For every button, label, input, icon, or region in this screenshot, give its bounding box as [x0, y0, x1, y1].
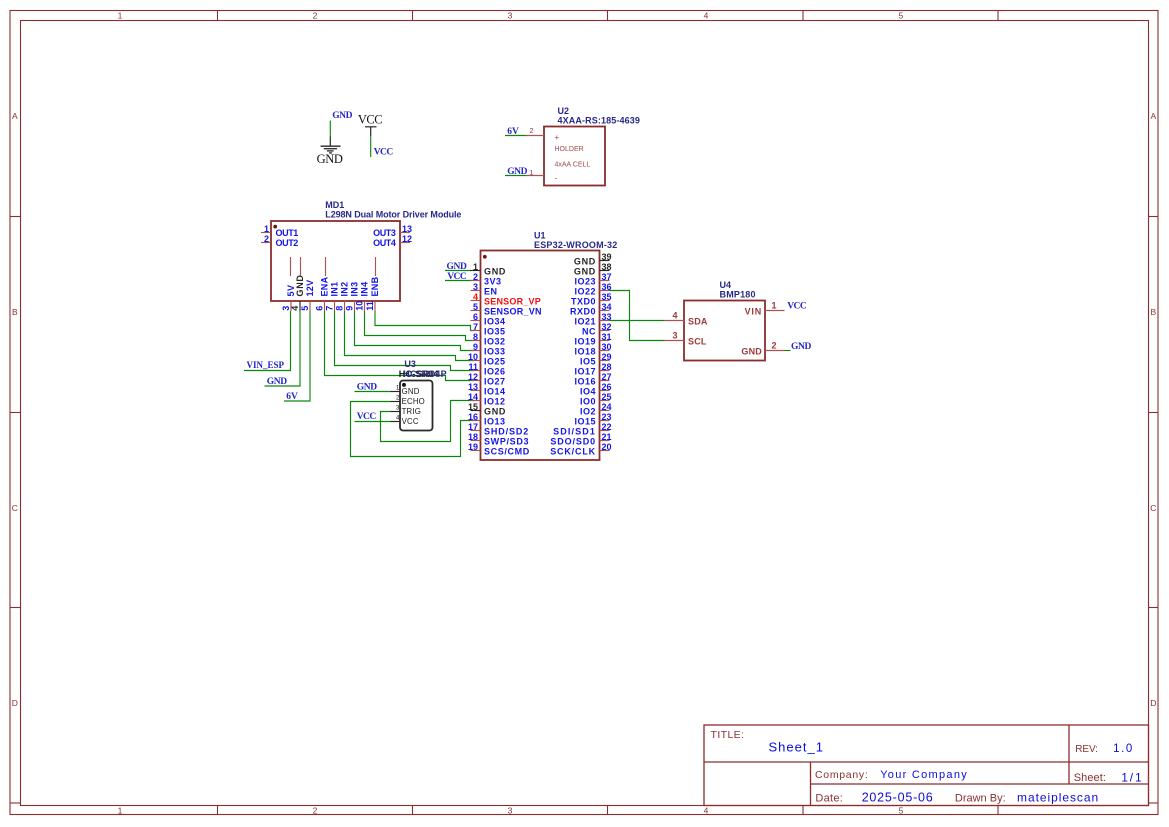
wire VCC to U3 pin 4 — [355, 421, 391, 423]
svg-text:GND: GND — [295, 274, 305, 296]
svg-text:MD1: MD1 — [325, 200, 344, 210]
U1 pin 35 TXD0 — [571, 292, 612, 307]
svg-text:Your Company: Your Company — [880, 769, 968, 781]
svg-text:GND: GND — [574, 257, 596, 267]
svg-text:3: 3 — [508, 805, 513, 815]
svg-text:6: 6 — [473, 312, 478, 322]
svg-text:Drawn By:: Drawn By: — [955, 792, 1006, 804]
U1 pin 7 IO35 — [471, 322, 506, 337]
wire 6V to U2 pin 2 — [505, 135, 526, 137]
svg-text:IO26: IO26 — [484, 367, 506, 377]
svg-text:HOLDER: HOLDER — [555, 146, 584, 153]
svg-text:10: 10 — [468, 352, 478, 362]
svg-text:4: 4 — [672, 311, 677, 321]
svg-text:IO22: IO22 — [574, 287, 596, 297]
svg-text:VCC: VCC — [374, 147, 394, 157]
svg-text:ECHO: ECHO — [402, 397, 425, 406]
svg-text:18: 18 — [468, 432, 478, 442]
svg-text:VCC: VCC — [402, 417, 419, 426]
U4 pin 2 GND — [741, 341, 784, 357]
svg-text:11: 11 — [365, 301, 375, 311]
svg-text:OUT1: OUT1 — [276, 228, 299, 238]
U1 pin 11 IO26 — [468, 362, 505, 377]
wire U1 IO21 to U4 SDA — [610, 320, 665, 322]
title block Sheet — [1074, 770, 1144, 784]
border column labels — [118, 10, 904, 815]
title block REV — [1075, 743, 1134, 755]
wire stub U4 pin 2 to GND — [785, 350, 791, 352]
svg-text:10: 10 — [355, 301, 365, 311]
svg-text:TITLE:: TITLE: — [711, 729, 745, 741]
svg-text:SHD/SD2: SHD/SD2 — [484, 427, 529, 437]
svg-text:5: 5 — [300, 306, 310, 311]
wire to ground symbol — [329, 121, 331, 138]
svg-text:GND: GND — [332, 111, 352, 121]
border row ticks — [10, 217, 1158, 804]
U1 pin 34 RXD0 — [570, 302, 612, 317]
svg-text:15: 15 — [468, 402, 478, 412]
svg-text:C: C — [12, 503, 18, 513]
wire GND to U2 pin 1 — [505, 175, 526, 177]
battery holder U2 body — [544, 127, 605, 186]
U1 pin 8 IO32 — [471, 332, 506, 347]
svg-text:VCC: VCC — [787, 302, 807, 312]
svg-text:23: 23 — [602, 412, 612, 422]
svg-text:HCSR04P: HCSR04P — [403, 369, 447, 379]
svg-text:IO14: IO14 — [484, 387, 506, 397]
svg-text:A: A — [12, 111, 18, 121]
U1 pin 28 IO17 — [574, 362, 611, 377]
svg-text:SWP/SD3: SWP/SD3 — [484, 437, 529, 447]
U1 pin 29 IO5 — [580, 352, 612, 367]
U1 pin 25 IO0 — [580, 392, 612, 407]
svg-text:IO34: IO34 — [484, 317, 506, 327]
wire MD1 ENB to U1 IO35 — [375, 311, 474, 331]
U4 pin 4 SDA — [665, 311, 708, 327]
svg-text:IN1: IN1 — [330, 282, 340, 297]
U3 pin 4 VCC — [391, 416, 419, 426]
svg-text:Date:: Date: — [815, 792, 843, 804]
svg-text:1/1: 1/1 — [1121, 770, 1143, 784]
svg-text:IO35: IO35 — [484, 327, 506, 337]
svg-text:+: + — [555, 133, 560, 142]
svg-text:27: 27 — [602, 372, 612, 382]
svg-text:16: 16 — [468, 412, 478, 422]
MD1 pin 11 ENB — [365, 276, 380, 311]
U3 pin 2 ECHO — [391, 396, 425, 406]
svg-text:IO2: IO2 — [580, 407, 596, 417]
U2 pin 1 (-) — [526, 170, 544, 177]
svg-text:35: 35 — [602, 292, 612, 302]
U1 pin 38 GND — [574, 262, 612, 277]
svg-text:2: 2 — [264, 234, 269, 244]
MD1 pin-1 dot — [273, 225, 277, 229]
wire GND to U3 pin 1 — [355, 391, 391, 393]
IC U1 ESP32 body — [481, 251, 600, 461]
svg-text:38: 38 — [602, 262, 612, 272]
svg-text:IO18: IO18 — [574, 347, 596, 357]
MD1 pin 6 ENA — [315, 276, 330, 311]
svg-text:1: 1 — [473, 262, 478, 272]
svg-text:OUT2: OUT2 — [276, 238, 299, 248]
U1 pin 5 SENSOR_VN — [471, 302, 542, 317]
svg-text:33: 33 — [602, 312, 612, 322]
svg-text:Sheet_1: Sheet_1 — [769, 740, 824, 755]
svg-text:EN: EN — [484, 287, 498, 297]
svg-text:IO4: IO4 — [580, 387, 596, 397]
svg-text:1: 1 — [530, 170, 534, 177]
svg-text:GND: GND — [574, 267, 596, 277]
svg-text:VIN: VIN — [745, 307, 762, 317]
svg-text:REV:: REV: — [1075, 744, 1098, 755]
svg-text:34: 34 — [602, 302, 612, 312]
svg-text:5: 5 — [899, 10, 904, 20]
svg-text:U2: U2 — [558, 106, 570, 116]
svg-text:1.0: 1.0 — [1113, 743, 1134, 755]
svg-text:4xAA CELL: 4xAA CELL — [555, 162, 591, 169]
U1 pin 33 IO21 — [574, 312, 611, 327]
svg-text:BMP180: BMP180 — [720, 290, 756, 300]
svg-text:12: 12 — [468, 372, 478, 382]
svg-text:GND: GND — [402, 387, 420, 396]
svg-text:NC: NC — [582, 327, 596, 337]
wire MD1 IN2 to U1 IO25 — [345, 311, 475, 361]
U1 pin 9 IO33 — [471, 342, 506, 357]
svg-text:C: C — [1150, 503, 1156, 513]
wire GND to U1 pin 1 — [445, 270, 471, 272]
svg-text:GND: GND — [447, 262, 467, 272]
svg-text:6V: 6V — [507, 127, 519, 137]
U1 pin 15 GND — [468, 402, 506, 417]
svg-text:B: B — [12, 307, 18, 317]
U2 internal labels — [555, 133, 591, 183]
svg-text:U4: U4 — [720, 280, 732, 290]
svg-text:VIN_ESP: VIN_ESP — [247, 360, 285, 370]
svg-text:D: D — [12, 698, 18, 708]
svg-text:-: - — [555, 174, 558, 183]
svg-text:SENSOR_VP: SENSOR_VP — [484, 297, 541, 307]
svg-text:3: 3 — [473, 282, 478, 292]
svg-text:IN4: IN4 — [360, 282, 370, 297]
MD1 internal pin lines — [291, 257, 376, 276]
svg-text:19: 19 — [468, 442, 478, 452]
svg-text:OUT3: OUT3 — [373, 228, 396, 238]
svg-text:GND: GND — [507, 167, 527, 177]
svg-text:IO0: IO0 — [580, 397, 596, 407]
U1 pin 13 IO14 — [468, 382, 506, 397]
U1 pin 3 EN — [471, 282, 498, 297]
svg-text:20: 20 — [602, 442, 612, 452]
U1 pin 17 SHD/SD2 — [468, 422, 529, 437]
MD1 pin 2 OUT2 — [261, 234, 298, 248]
wire VCC to U1 pin 2 — [445, 280, 472, 282]
svg-text:9: 9 — [473, 342, 478, 352]
svg-text:5: 5 — [899, 805, 904, 815]
svg-text:SENSOR_VN: SENSOR_VN — [484, 307, 542, 317]
svg-text:37: 37 — [602, 272, 612, 282]
MD1 pin 3 5V — [281, 284, 296, 311]
svg-text:SDI/SD1: SDI/SD1 — [553, 427, 596, 437]
svg-text:1: 1 — [772, 301, 777, 311]
title block Date / Drawn By — [815, 790, 1099, 804]
svg-text:3: 3 — [508, 10, 513, 20]
svg-text:IO27: IO27 — [484, 377, 506, 387]
svg-text:GND: GND — [317, 152, 343, 166]
svg-text:VCC: VCC — [358, 113, 382, 127]
svg-text:GND: GND — [791, 342, 811, 352]
svg-text:IO33: IO33 — [484, 347, 506, 357]
wire U3 TRIG to U1 IO12 — [381, 401, 475, 442]
U1 pin 30 IO18 — [574, 342, 611, 357]
border row labels — [12, 111, 1157, 708]
svg-text:2025-05-06: 2025-05-06 — [862, 790, 934, 804]
svg-text:2: 2 — [530, 128, 534, 135]
svg-text:2: 2 — [772, 341, 777, 351]
svg-text:2: 2 — [313, 805, 318, 815]
ground symbol — [317, 137, 343, 167]
title block frame — [704, 725, 1149, 806]
svg-text:12: 12 — [402, 234, 412, 244]
svg-text:8: 8 — [335, 306, 345, 311]
U1 pin 12 IO27 — [468, 372, 506, 387]
MD1 pin 13 OUT3 — [373, 224, 412, 238]
MD1 pin 10 IN4 — [355, 282, 370, 311]
svg-text:13: 13 — [402, 224, 412, 234]
VCC power symbol — [358, 113, 382, 137]
svg-text:SCK/CLK: SCK/CLK — [550, 447, 596, 457]
U1 pin 14 IO12 — [468, 392, 506, 407]
U1 pin 27 IO16 — [574, 372, 611, 387]
svg-text:Sheet:: Sheet: — [1074, 772, 1106, 784]
svg-text:VCC: VCC — [447, 272, 467, 282]
MD1 pin 1 OUT1 — [261, 224, 298, 238]
svg-text:IO16: IO16 — [574, 377, 596, 387]
svg-text:1: 1 — [118, 805, 123, 815]
U1 pin 20 SCK/CLK — [550, 442, 611, 457]
svg-text:4: 4 — [290, 306, 300, 311]
svg-text:D: D — [1150, 698, 1156, 708]
svg-text:IO21: IO21 — [574, 317, 596, 327]
svg-text:Company:: Company: — [815, 769, 868, 781]
svg-text:mateiplescan: mateiplescan — [1017, 790, 1099, 804]
pressure sensor U4 BMP180 body — [684, 301, 765, 361]
U1 pin 22 SDI/SD1 — [553, 422, 611, 437]
svg-text:13: 13 — [468, 382, 478, 392]
svg-text:VCC: VCC — [357, 412, 377, 422]
svg-text:4: 4 — [473, 292, 478, 302]
svg-text:36: 36 — [602, 282, 612, 292]
svg-text:28: 28 — [602, 362, 612, 372]
svg-text:B: B — [1150, 307, 1156, 317]
U1 pin 21 SDO/SD0 — [550, 432, 611, 447]
U1 pin 32 NC — [582, 322, 612, 337]
svg-text:IN3: IN3 — [350, 282, 360, 297]
wire from VCC symbol — [370, 136, 372, 157]
svg-text:GND: GND — [267, 377, 287, 387]
svg-text:2: 2 — [473, 272, 478, 282]
svg-text:U3: U3 — [404, 359, 416, 369]
wire VIN_ESP to MD1 pin 3 — [244, 311, 291, 371]
svg-text:5: 5 — [473, 302, 478, 312]
U4 pin 3 SCL — [665, 331, 707, 347]
svg-text:IO23: IO23 — [574, 277, 596, 287]
svg-text:24: 24 — [602, 402, 612, 412]
wire U3 ECHO to U1 IO13 — [351, 402, 475, 457]
svg-text:ESP32-WROOM-32: ESP32-WROOM-32 — [534, 240, 617, 250]
U1 pin 1 GND — [471, 262, 507, 277]
svg-text:32: 32 — [602, 322, 612, 332]
wire MD1 IN3 to U1 IO33 — [355, 311, 475, 351]
U1 pin 16 IO13 — [468, 412, 506, 427]
svg-text:31: 31 — [602, 332, 612, 342]
U1 pin 23 IO15 — [574, 412, 611, 427]
MD1 pin 7 IN1 — [325, 282, 340, 311]
svg-text:GND: GND — [741, 347, 762, 357]
ultrasonic sensor U3 body — [400, 381, 433, 431]
svg-text:A: A — [1150, 111, 1156, 121]
svg-text:GND: GND — [357, 382, 377, 392]
U1 pin 31 IO19 — [574, 332, 611, 347]
svg-text:7: 7 — [473, 322, 478, 332]
svg-text:TRIG: TRIG — [402, 407, 421, 416]
U1 pin 18 SWP/SD3 — [468, 432, 529, 447]
svg-text:L298N Dual Motor Driver Module: L298N Dual Motor Driver Module — [325, 210, 461, 220]
wire 6V to MD1 pin 5 — [284, 311, 310, 401]
svg-text:8: 8 — [473, 332, 478, 342]
svg-text:6V: 6V — [286, 392, 298, 402]
U1 pin 36 IO22 — [574, 282, 611, 297]
U1 pin 6 IO34 — [471, 312, 506, 327]
U1 pin 19 SCS/CMD — [468, 442, 530, 457]
svg-text:25: 25 — [602, 392, 612, 402]
svg-text:RXD0: RXD0 — [570, 307, 596, 317]
svg-text:1: 1 — [118, 10, 123, 20]
svg-text:GND: GND — [484, 407, 506, 417]
svg-text:29: 29 — [602, 352, 612, 362]
svg-text:ENB: ENB — [370, 276, 380, 296]
svg-text:22: 22 — [602, 422, 612, 432]
U3 pin 1 GND — [391, 386, 420, 396]
wire MD1 IN4 to U1 IO32 — [365, 311, 475, 341]
wire GND to MD1 pin 4 — [265, 311, 301, 386]
svg-text:17: 17 — [468, 422, 478, 432]
svg-text:4: 4 — [704, 805, 709, 815]
U1 pin 24 IO2 — [580, 402, 612, 417]
svg-text:14: 14 — [468, 392, 478, 402]
svg-text:IN2: IN2 — [340, 282, 350, 297]
svg-text:26: 26 — [602, 382, 612, 392]
MD1 pin 9 IN3 — [345, 282, 360, 311]
svg-text:2: 2 — [313, 10, 318, 20]
U1 pin 26 IO4 — [580, 382, 612, 397]
U2 pin 2 (+) — [526, 128, 544, 135]
U1 pin 10 IO25 — [468, 352, 506, 367]
svg-text:11: 11 — [468, 362, 478, 372]
svg-text:IO15: IO15 — [574, 417, 596, 427]
svg-text:4: 4 — [704, 10, 709, 20]
svg-text:7: 7 — [325, 306, 335, 311]
svg-text:SCL: SCL — [688, 337, 707, 347]
svg-text:IO25: IO25 — [484, 357, 506, 367]
U3 pin 3 TRIG — [391, 406, 422, 416]
wire MD1 ENA to U1 IO27 — [325, 311, 475, 381]
motor driver MD1 body — [271, 221, 400, 301]
svg-text:U1: U1 — [534, 231, 546, 241]
U1 pin 4 SENSOR_VP — [471, 292, 542, 307]
svg-text:IO19: IO19 — [574, 337, 596, 347]
svg-text:9: 9 — [345, 306, 355, 311]
title block Company — [815, 769, 968, 781]
svg-text:3: 3 — [672, 331, 677, 341]
svg-text:SDA: SDA — [688, 317, 708, 327]
U4 pin 1 VIN — [745, 301, 785, 317]
svg-text:4XAA-RS:185-4639: 4XAA-RS:185-4639 — [558, 115, 640, 125]
U1 pin-1 dot — [483, 255, 487, 259]
svg-text:IO32: IO32 — [484, 337, 506, 347]
MD1 pin 5 12V — [300, 280, 315, 311]
svg-text:SCS/CMD: SCS/CMD — [484, 447, 530, 457]
svg-text:IO13: IO13 — [484, 417, 506, 427]
svg-text:ENA: ENA — [320, 276, 330, 296]
svg-text:IO12: IO12 — [484, 397, 506, 407]
svg-text:21: 21 — [602, 432, 612, 442]
U3 pin-1 dot — [402, 383, 406, 387]
U1 pin 37 IO23 — [574, 272, 611, 287]
svg-text:IO17: IO17 — [574, 367, 596, 377]
U1 pin 39 GND — [574, 252, 612, 267]
svg-text:IO5: IO5 — [580, 357, 596, 367]
svg-text:12V: 12V — [305, 280, 315, 297]
svg-text:39: 39 — [602, 252, 612, 262]
svg-text:TXD0: TXD0 — [571, 297, 596, 307]
MD1 pin 12 OUT4 — [373, 234, 412, 248]
svg-text:1: 1 — [264, 224, 269, 234]
svg-text:GND: GND — [484, 267, 506, 277]
svg-text:30: 30 — [602, 342, 612, 352]
wire U1 IO22 to U4 SCL — [610, 291, 665, 341]
wire MD1 IN1 to U1 IO26 — [335, 311, 475, 371]
svg-text:OUT4: OUT4 — [373, 238, 396, 248]
MD1 pin 8 IN2 — [335, 282, 350, 311]
svg-text:3V3: 3V3 — [484, 277, 502, 287]
svg-text:6: 6 — [315, 306, 325, 311]
U1 pin 2 3V3 — [471, 272, 502, 287]
MD1 pin 4 GND — [290, 274, 305, 311]
svg-text:SDO/SD0: SDO/SD0 — [550, 437, 596, 447]
border column ticks — [218, 11, 999, 815]
